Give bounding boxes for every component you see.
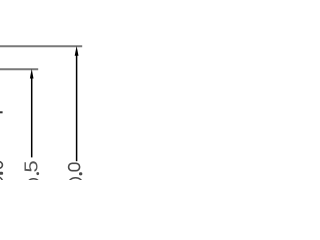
node label right lower digit arc (clipped 0) xyxy=(69,178,82,188)
wire: gray level line 3 stub at left edge xyxy=(0,111,3,113)
node label left digit 0 (rotated, clipped) xyxy=(0,162,2,169)
arrow A1 head xyxy=(75,46,79,56)
wire: gray level line 2 (middle) xyxy=(0,68,38,70)
wire: gray level line 1 (top) xyxy=(0,45,82,47)
arrow A1 shaft xyxy=(76,55,78,161)
node label right decimal point xyxy=(79,172,82,175)
node label right digit 0 (rotated) xyxy=(69,163,80,170)
node label left decimal point (clipped) xyxy=(0,172,3,175)
svg-text:5: 5 xyxy=(22,160,42,172)
node label mid decimal point xyxy=(36,172,39,175)
node label mid lower digit arc (clipped 0) xyxy=(28,179,40,188)
arrow A2 shaft xyxy=(31,78,33,158)
arrow A2 head xyxy=(30,69,34,79)
node label left lower digit arc (clipped 0) xyxy=(0,176,2,186)
